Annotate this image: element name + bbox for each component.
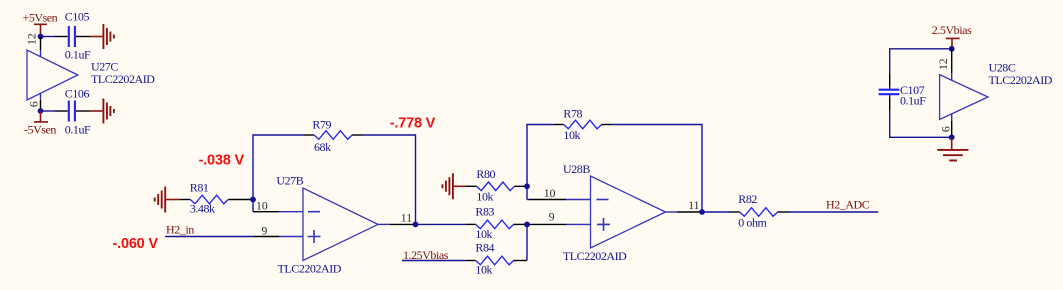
- svg-text:10k: 10k: [563, 128, 580, 142]
- svg-text:-.038 V: -.038 V: [199, 152, 245, 168]
- node U28B output: [699, 209, 705, 215]
- pin 10 of U28B: [527, 199, 529, 201]
- capacitor C106: [55, 86, 91, 136]
- resistor R80 10k: [466, 167, 527, 204]
- power -5Vsen: [24, 111, 56, 136]
- svg-text:2.5Vbias: 2.5Vbias: [932, 23, 972, 37]
- svg-text:0.1uF: 0.1uF: [65, 48, 91, 62]
- svg-text:H2_in: H2_in: [166, 222, 194, 236]
- node A (U27B inverting input): [250, 197, 256, 203]
- svg-text:U27B: U27B: [276, 173, 303, 187]
- ground (bar style) left of R80: [442, 173, 466, 199]
- pin 6 of U28C: [951, 114, 953, 121]
- svg-text:6: 6: [28, 101, 41, 107]
- wire node to U28B pin 9: [527, 223, 529, 225]
- wire junction to C105: [41, 36, 56, 38]
- svg-text:6: 6: [939, 126, 952, 132]
- wire junction to C106: [41, 110, 56, 112]
- svg-text:10k: 10k: [475, 263, 492, 277]
- wire C107 down to pin 6 row: [889, 95, 891, 98]
- wire output to R82: [702, 211, 729, 213]
- svg-text:10k: 10k: [476, 190, 493, 204]
- svg-text:-5Vsen: -5Vsen: [24, 122, 56, 136]
- pin 9 of U27B: [254, 236, 279, 238]
- wire jog node A to pin 10: [252, 200, 254, 212]
- power +5Vsen: [23, 11, 58, 37]
- svg-text:U28B: U28B: [563, 162, 590, 176]
- capacitor C107: [879, 83, 927, 108]
- svg-text:R79: R79: [312, 117, 331, 131]
- node U27B output: [413, 222, 419, 228]
- pin 10 of U27B: [253, 211, 279, 213]
- svg-text:TLC2202AID: TLC2202AID: [563, 249, 627, 263]
- svg-text:C105: C105: [65, 10, 90, 24]
- svg-text:9: 9: [262, 224, 268, 237]
- power 2.5Vbias: [932, 23, 972, 49]
- node at U28C pin 12: [949, 46, 955, 52]
- node at U27C pin 6: [38, 108, 44, 114]
- pin 11 of U27B (output): [378, 223, 390, 225]
- op-amp U28B: [563, 162, 666, 263]
- svg-text:C106: C106: [65, 86, 90, 100]
- resistor R82 0 ohm: [729, 192, 790, 229]
- pin 9 of U28B: [529, 223, 566, 225]
- node R83/R84 (U28B non-inverting input): [524, 222, 530, 228]
- svg-text:12: 12: [25, 33, 38, 45]
- svg-text:R84: R84: [475, 241, 494, 255]
- pin 6 of U27C: [40, 93, 42, 100]
- svg-text:3.48k: 3.48k: [190, 202, 215, 216]
- svg-text:H2_ADC: H2_ADC: [826, 197, 870, 211]
- pin 12 of U27C: [40, 37, 42, 51]
- ground (earth style) below U28C: [937, 137, 968, 160]
- wire R78 to U28B output: [612, 125, 702, 213]
- resistor R84 10k: [466, 241, 527, 277]
- node U28B inverting input: [524, 183, 530, 189]
- ground (bar style) left of R81: [155, 187, 180, 213]
- ground (bar style) right of C105: [90, 24, 114, 49]
- pin 11 of U28B (output): [666, 211, 678, 213]
- svg-text:TLC2202AID: TLC2202AID: [91, 72, 155, 86]
- op-amp U27B: [276, 173, 378, 275]
- svg-text:R80: R80: [476, 167, 495, 181]
- svg-text:TLC2202AID: TLC2202AID: [278, 262, 342, 276]
- svg-text:12: 12: [937, 58, 950, 70]
- svg-text:R78: R78: [563, 106, 582, 120]
- resistor R81 3.48k: [180, 181, 253, 216]
- wire node A up to feedback: [253, 135, 304, 200]
- resistor R83 10k: [466, 204, 527, 241]
- capacitor C105: [55, 10, 91, 62]
- svg-text:0 ohm: 0 ohm: [738, 215, 767, 229]
- resistor R79 68k: [304, 117, 362, 154]
- resistor R78 10k: [554, 106, 612, 141]
- wire U27B output to R83: [416, 223, 466, 225]
- pin 12 of U28C: [951, 49, 953, 73]
- svg-text:68k: 68k: [314, 140, 331, 154]
- wire 1.25Vbias to R84: [402, 260, 466, 262]
- svg-text:0.1uF: 0.1uF: [900, 93, 926, 107]
- wire R84 up to node: [526, 224, 528, 260]
- wire node up to R78 feedback: [527, 125, 554, 187]
- svg-text:TLC2202AID: TLC2202AID: [989, 73, 1053, 87]
- svg-text:-.778 V: -.778 V: [390, 115, 436, 131]
- svg-text:10: 10: [544, 187, 556, 200]
- svg-text:R82: R82: [738, 192, 757, 206]
- svg-text:R83: R83: [475, 204, 494, 218]
- svg-text:0.1uF: 0.1uF: [65, 123, 91, 137]
- wire R82 to H2_ADC: [790, 211, 878, 213]
- svg-text:11: 11: [688, 199, 699, 212]
- wire jog to pin 10: [526, 186, 528, 199]
- op-amp U27C: [27, 50, 155, 100]
- svg-text:10: 10: [256, 199, 268, 212]
- ground (bar style) right of C106: [90, 99, 114, 124]
- svg-text:R81: R81: [190, 181, 209, 195]
- svg-text:9: 9: [549, 211, 555, 224]
- svg-text:-.060 V: -.060 V: [113, 236, 159, 252]
- svg-text:11: 11: [401, 212, 412, 225]
- wire node to left branch: [890, 49, 952, 74]
- svg-text:+5Vsen: +5Vsen: [23, 11, 58, 25]
- wire R79 to output node: [362, 135, 416, 224]
- node at U28C pin 6: [949, 134, 955, 140]
- node at U27C pin 12: [38, 34, 44, 40]
- wire H2_in to U27B pin 9: [165, 236, 254, 238]
- svg-text:10k: 10k: [475, 227, 492, 241]
- op-amp U28C: [940, 61, 1053, 120]
